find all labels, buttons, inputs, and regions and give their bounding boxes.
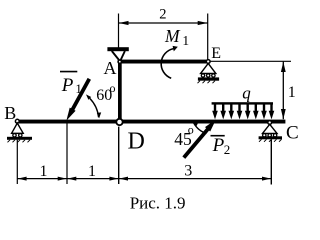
svg-text:1: 1 [88, 163, 96, 180]
svg-text:o: o [188, 122, 194, 136]
angle 45 arc arrowhead [193, 122, 199, 126]
rollers C [263, 134, 266, 137]
label P2 with overline [211, 135, 225, 137]
dimension line "2" (top) [119, 21, 208, 25]
node D hinge circle [116, 119, 122, 125]
ground C [259, 136, 282, 139]
svg-text:1: 1 [40, 163, 48, 180]
svg-text:P: P [212, 135, 225, 156]
distributed load q top bar [212, 102, 273, 104]
label P1 with overline [60, 71, 77, 73]
wire: extension line below B [16, 140, 18, 184]
support E triangle [201, 63, 216, 73]
member A-D (vertical bar) [118, 63, 122, 121]
angle 60 arc [90, 98, 99, 117]
rollers E [201, 74, 204, 77]
distributed load q arrows [212, 104, 274, 119]
angle 60 arc arrowhead upper [86, 94, 91, 99]
svg-text:B: B [4, 103, 16, 123]
force P2 vector [184, 127, 210, 158]
wire: extension line below P1 point [66, 124, 68, 185]
svg-text:q: q [242, 83, 251, 102]
support C triangle [263, 124, 278, 133]
svg-text:Рис. 1.9: Рис. 1.9 [130, 193, 186, 212]
pin C [268, 121, 272, 125]
dimension line bottom [17, 178, 271, 180]
beam B-D-C (main horizontal bar) [19, 120, 285, 124]
bottom dimension arrowheads [18, 177, 271, 181]
wire: extension line below D [118, 127, 120, 184]
pin E [206, 60, 210, 64]
support B triangle [12, 123, 24, 133]
svg-text:C: C [286, 123, 299, 144]
ground B [7, 137, 32, 140]
svg-text:P: P [61, 75, 74, 96]
svg-text:E: E [211, 45, 221, 62]
moment M1 arc [161, 49, 173, 79]
force P1 arrowhead [66, 108, 75, 121]
svg-text:3: 3 [184, 162, 192, 179]
force P2 arrowhead [205, 119, 216, 131]
wire: extension line below C [270, 139, 272, 184]
svg-text:1: 1 [75, 81, 82, 96]
support A triangle legs [112, 51, 125, 60]
wire: dimension extension line above E [207, 14, 209, 60]
pin B [15, 119, 19, 123]
rollers B [13, 134, 16, 137]
svg-text:2: 2 [159, 7, 166, 23]
wire: extension line from E to right dimension [211, 60, 292, 62]
beam A-E (top horizontal bar) [121, 60, 206, 64]
pin A [118, 60, 121, 63]
angle 60 arc arrowhead lower [97, 112, 101, 118]
ground E [198, 77, 219, 80]
dimension line "1" (right vertical) [281, 62, 286, 120]
moment M1 arrowhead [173, 46, 178, 52]
svg-text:D: D [128, 129, 145, 155]
svg-text:1: 1 [182, 33, 189, 48]
svg-text:o: o [110, 81, 116, 95]
svg-text:2: 2 [224, 142, 231, 157]
angle 45 arc [194, 123, 207, 134]
wire: dimension extension line above A [118, 14, 120, 49]
svg-text:M: M [164, 26, 181, 46]
force P1 vector [71, 79, 89, 112]
svg-text:A: A [104, 58, 117, 78]
support A ceiling bar [107, 47, 128, 51]
svg-text:1: 1 [288, 84, 296, 101]
